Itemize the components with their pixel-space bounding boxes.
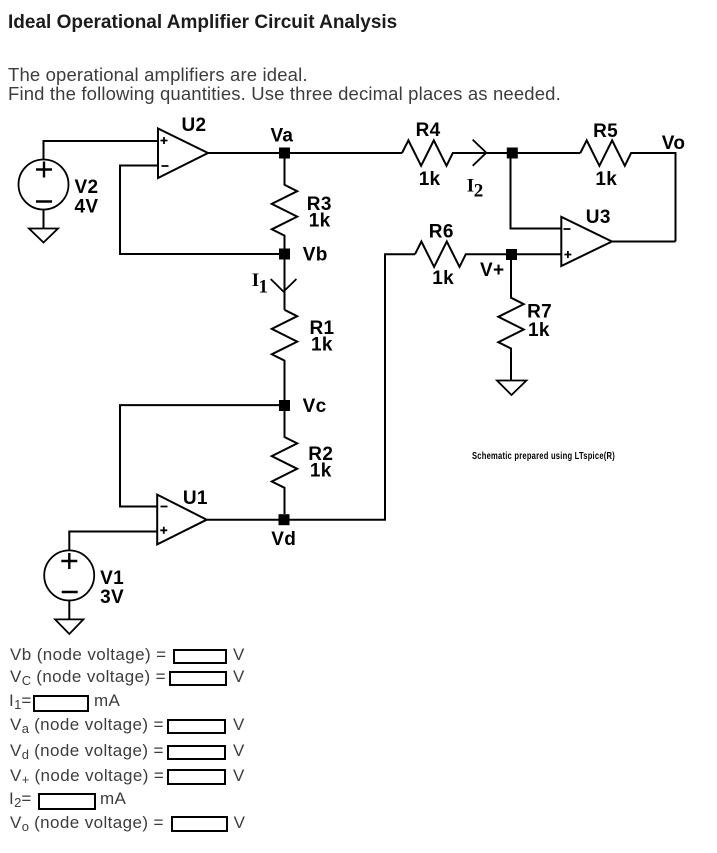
svg-text:V1: V1	[100, 568, 124, 589]
svg-text:1k: 1k	[310, 461, 332, 482]
voltage source V2	[19, 160, 69, 210]
answer row Va	[10, 716, 164, 733]
answer row Vd	[10, 742, 164, 759]
resistor R4	[402, 140, 580, 165]
node Vd	[279, 514, 290, 525]
op-amp U3	[561, 217, 612, 266]
wire Vb down to R1	[284, 254, 286, 310]
description	[8, 65, 561, 104]
svg-text:1k: 1k	[432, 268, 454, 289]
svg-text:1k: 1k	[528, 320, 550, 341]
wire V2 top to U2 + input	[44, 141, 159, 160]
answer row Vo	[10, 814, 164, 831]
node Vc	[279, 400, 290, 411]
voltage source V1	[44, 550, 94, 600]
svg-text:Vb: Vb	[303, 245, 328, 266]
wire node to U3 minus input	[511, 158, 562, 229]
svg-text:1k: 1k	[309, 211, 331, 232]
svg-text:3V: 3V	[100, 587, 124, 608]
op-amp U2	[158, 129, 208, 179]
svg-text:U3: U3	[586, 207, 611, 228]
current arrow I2	[473, 140, 487, 166]
node Va	[279, 148, 290, 159]
wire V1 to U1 + input	[69, 532, 157, 551]
svg-text:U1: U1	[183, 488, 208, 509]
svg-text:2: 2	[474, 181, 484, 202]
svg-text:1k: 1k	[311, 335, 333, 356]
answer row V+	[10, 767, 164, 784]
node Vb	[279, 249, 290, 260]
svg-text:R5: R5	[593, 121, 618, 142]
node after R4	[507, 148, 518, 159]
svg-text:Schematic prepared using LTspi: Schematic prepared using LTspice(R)	[472, 451, 615, 462]
svg-text:V2: V2	[75, 177, 99, 198]
svg-text:V+: V+	[480, 260, 504, 281]
svg-text:1k: 1k	[419, 169, 441, 190]
wire Vc left feedback to U1 minus	[120, 405, 285, 506]
svg-text:Vc: Vc	[303, 396, 327, 417]
ground (below R7)	[497, 381, 526, 396]
ground (below V1)	[55, 619, 83, 634]
answer row I2	[9, 790, 32, 807]
answer row Vc	[10, 668, 166, 685]
answer row Vb	[10, 646, 166, 663]
wire U2 minus feedback to Vb	[120, 166, 285, 255]
svg-text:Va: Va	[271, 126, 294, 147]
svg-text:U2: U2	[182, 115, 207, 136]
current arrow I1	[271, 279, 297, 292]
wire V2 bottom to ground	[43, 210, 45, 229]
title	[8, 12, 397, 34]
svg-text:4V: 4V	[75, 197, 99, 218]
wire V1 bottom to ground	[68, 601, 70, 620]
svg-text:R6: R6	[429, 222, 454, 243]
svg-text:1k: 1k	[595, 169, 617, 190]
op-amp U1	[157, 495, 207, 545]
svg-text:1: 1	[259, 277, 269, 298]
resistor R3	[272, 153, 297, 254]
answer row I1	[9, 692, 32, 709]
wire U3 output to Vo corner	[612, 241, 676, 243]
wire U1 output to Vd and up right side to R6	[207, 254, 415, 520]
wire U2 output to Va to R4	[208, 152, 402, 154]
node V+	[506, 249, 517, 260]
resistor R7	[498, 255, 523, 381]
resistor R6	[415, 242, 561, 267]
svg-text:Vo: Vo	[662, 133, 685, 154]
ground (below V2)	[29, 229, 58, 243]
svg-text:Vd: Vd	[271, 529, 296, 550]
resistor R1	[272, 310, 297, 400]
svg-text:R4: R4	[416, 120, 441, 141]
resistor R2	[272, 406, 297, 515]
resistor R5	[580, 140, 675, 241]
